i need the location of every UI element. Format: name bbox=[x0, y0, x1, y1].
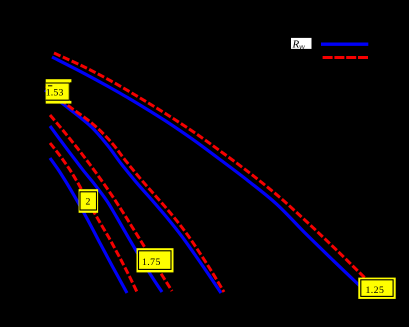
label box 2 bbox=[79, 189, 99, 213]
svg-text:1.53: 1.53 bbox=[46, 87, 64, 98]
legend label box R_gammagamma bbox=[291, 38, 312, 51]
legend blue line bbox=[321, 43, 368, 46]
curve B red (R=1.53 contour, dashed) bbox=[46, 86, 224, 292]
curve C red (R=1.75 contour, dashed) bbox=[50, 115, 172, 291]
svg-text:2: 2 bbox=[86, 197, 91, 208]
label box 1.53 bbox=[46, 79, 72, 103]
curve C blue (R=1.75 contour, solid) bbox=[50, 126, 162, 292]
label box 1.25 bbox=[358, 278, 395, 299]
curve D blue (R=2 contour, solid) bbox=[50, 158, 127, 293]
curve B blue (R=1.53 contour, solid) bbox=[45, 90, 221, 293]
curve A blue (R=1.25 contour, solid) bbox=[52, 57, 361, 287]
svg-text:1.25: 1.25 bbox=[366, 285, 385, 296]
label box 1.75 bbox=[137, 248, 174, 272]
legend red dashed line bbox=[323, 56, 369, 59]
svg-text:1.75: 1.75 bbox=[142, 257, 161, 268]
curve D red (R=2 contour, dashed) bbox=[50, 143, 137, 292]
curve A red (R=1.25 contour, dashed) bbox=[54, 53, 365, 278]
